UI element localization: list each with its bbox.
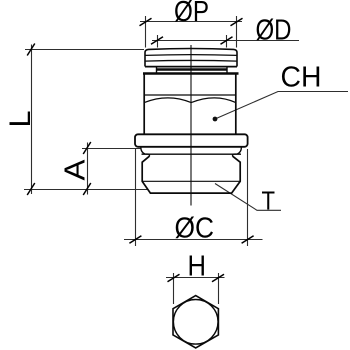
svg-text:ØC: ØC bbox=[175, 212, 215, 244]
svg-text:CH: CH bbox=[281, 61, 322, 93]
svg-text:ØP: ØP bbox=[174, 0, 209, 28]
svg-text:T: T bbox=[262, 187, 276, 215]
svg-text:L: L bbox=[4, 111, 37, 128]
svg-text:A: A bbox=[60, 159, 92, 181]
svg-text:ØD: ØD bbox=[256, 15, 292, 47]
svg-text:H: H bbox=[188, 251, 207, 283]
